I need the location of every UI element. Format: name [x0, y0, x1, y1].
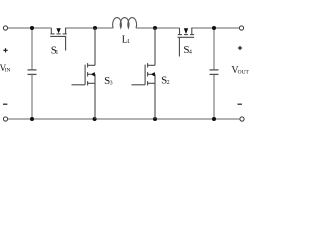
node S2 drain junction	[153, 26, 157, 30]
wire input cap bottom	[31, 75, 33, 119]
output terminal -	[240, 117, 244, 121]
node S2 source junction	[153, 117, 157, 121]
wire top rail S1 to L1	[65, 27, 113, 29]
transistor S1 (horizontal NMOS in top rail)	[50, 28, 67, 51]
wire output cap top	[213, 28, 215, 69]
input terminal +	[3, 26, 7, 30]
wire top rail left	[8, 27, 52, 29]
transistor S4 (horizontal NMOS in top rail)	[178, 28, 195, 57]
transistor S3 (vertical NMOS to ground)	[72, 28, 96, 119]
inductor L1	[113, 18, 137, 28]
label plus input	[3, 48, 7, 52]
node input cap bottom junction	[30, 117, 34, 121]
wire input cap top	[31, 28, 33, 69]
wire output cap bottom	[213, 75, 215, 119]
transistor S2 (vertical NMOS to ground)	[132, 28, 156, 119]
node S3 drain junction	[93, 26, 97, 30]
label minus input	[3, 103, 7, 105]
capacitor Cout	[210, 70, 219, 75]
svg-text:OUT: OUT	[238, 69, 250, 75]
wire top rail right	[191, 27, 239, 29]
node S3 source junction	[93, 117, 97, 121]
label minus output	[238, 103, 242, 105]
wire bottom rail	[8, 118, 240, 120]
node output cap bottom junction	[212, 117, 216, 121]
capacitor Cin	[28, 70, 37, 75]
svg-text:1: 1	[55, 50, 58, 56]
label plus output	[238, 46, 242, 50]
node input cap top junction	[30, 26, 34, 30]
svg-text:2: 2	[167, 80, 170, 86]
svg-text:IN: IN	[5, 67, 11, 73]
svg-text:3: 3	[110, 81, 113, 87]
svg-text:1: 1	[127, 39, 130, 45]
wire top rail L1 to S4	[136, 27, 180, 29]
input terminal -	[3, 117, 7, 121]
output terminal +	[239, 26, 243, 30]
node output cap top junction	[212, 26, 216, 30]
svg-text:4: 4	[189, 50, 192, 56]
